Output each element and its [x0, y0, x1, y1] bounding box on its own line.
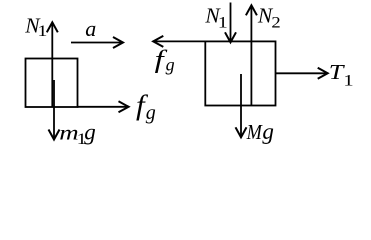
left block m1 [26, 59, 78, 108]
svg-text:g: g [84, 120, 96, 145]
svg-text:2: 2 [271, 14, 280, 31]
svg-text:1: 1 [218, 14, 228, 31]
svg-text:a: a [85, 16, 96, 41]
svg-text:M: M [246, 121, 263, 145]
N1 down arrow (right block) [230, 3, 232, 42]
N2 up arrow [250, 7, 252, 106]
svg-text:g: g [146, 102, 156, 124]
acceleration a arrow [71, 42, 122, 44]
T1 right arrow [276, 72, 327, 74]
svg-text:1: 1 [343, 72, 353, 89]
m1g down arrow [53, 80, 55, 138]
svg-text:g: g [166, 55, 175, 75]
right block M [205, 41, 275, 105]
svg-text:1: 1 [37, 22, 47, 39]
N1 up arrow (left) [51, 24, 53, 108]
svg-text:g: g [262, 119, 274, 144]
Mg down arrow [240, 74, 242, 136]
f_g right arrow (left block) [78, 106, 128, 108]
f_g left arrow (right block) [155, 40, 205, 42]
